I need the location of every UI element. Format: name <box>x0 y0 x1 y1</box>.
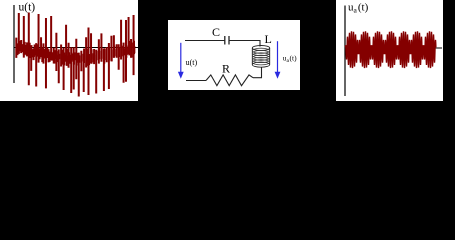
zero line <box>14 47 138 49</box>
zero line <box>345 47 442 49</box>
circuit panel: RLC band-pass <box>168 20 300 90</box>
wire bottom-left <box>186 80 206 82</box>
resistor R zigzag <box>206 75 253 86</box>
right plot panel: narrowband output ua(t) <box>336 0 443 101</box>
output voltage arrow <box>275 41 281 79</box>
svg-text:u(t): u(t) <box>186 58 198 67</box>
svg-text:L: L <box>265 32 272 46</box>
svg-text:u(t): u(t) <box>19 2 36 14</box>
beat waveform ua(t) <box>346 31 436 68</box>
inductor L coil <box>252 46 269 68</box>
wire inductor to bottom <box>261 67 263 78</box>
capacitor C plates <box>224 36 226 45</box>
wire top-right <box>229 41 260 47</box>
svg-text:R: R <box>222 61 230 75</box>
svg-text:C: C <box>212 25 220 39</box>
noise waveform core band <box>18 41 135 66</box>
vertical axis <box>13 5 15 83</box>
svg-text:ua(t): ua(t) <box>283 54 297 65</box>
svg-text:ua(t): ua(t) <box>348 2 369 15</box>
left plot panel: broadband input signal u(t) <box>0 0 138 101</box>
input voltage arrow <box>178 43 184 79</box>
wire top-left <box>185 40 225 42</box>
vertical axis <box>344 6 346 97</box>
noise waveform u(t) <box>16 13 133 97</box>
wire bottom-right <box>253 77 262 79</box>
